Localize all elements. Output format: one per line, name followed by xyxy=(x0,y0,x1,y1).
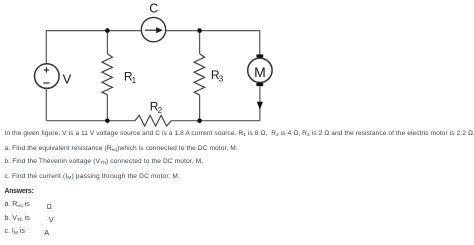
wire left rail lower xyxy=(45,88,47,120)
wire bottom-left segment xyxy=(46,120,135,122)
current arrow on motor branch xyxy=(257,102,263,110)
node dot top R3 xyxy=(197,28,202,33)
motor M xyxy=(248,54,272,86)
svg-text:2: 2 xyxy=(158,106,163,115)
label R1 xyxy=(124,69,137,85)
label C xyxy=(149,2,158,16)
node dot bottom R3 xyxy=(197,118,202,123)
label R3 xyxy=(211,68,224,84)
node dot bottom R1 xyxy=(105,118,110,123)
wire R3 branch upper xyxy=(199,31,201,54)
svg-text:C: C xyxy=(149,2,158,16)
svg-text:M: M xyxy=(254,64,266,80)
resistor R3 xyxy=(194,54,205,95)
svg-text:1: 1 xyxy=(132,76,137,85)
svg-text:V: V xyxy=(63,72,72,87)
current source C xyxy=(141,17,165,41)
wire motor branch lower xyxy=(259,86,261,121)
label V xyxy=(63,72,72,87)
wire R1 branch upper xyxy=(106,31,108,54)
wire top-left segment xyxy=(46,31,141,64)
node dot top R1 xyxy=(105,28,110,33)
wire top-right segment xyxy=(166,31,260,55)
resistor R1 xyxy=(102,54,113,95)
wire R3 branch lower xyxy=(199,95,201,121)
wire R1 branch lower xyxy=(106,95,108,121)
svg-text:3: 3 xyxy=(219,75,224,84)
voltage source V xyxy=(35,64,60,89)
label R2 xyxy=(150,100,163,116)
wire bottom-right segment xyxy=(171,120,260,122)
resistor R2 xyxy=(135,115,171,126)
